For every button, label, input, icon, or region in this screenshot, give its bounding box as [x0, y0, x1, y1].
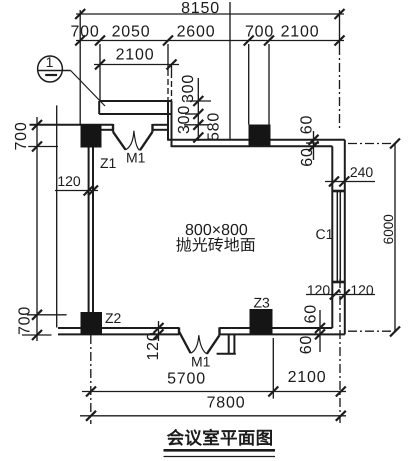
svg-text:M1: M1 [191, 354, 211, 370]
svg-text:700: 700 [70, 24, 99, 41]
svg-text:2100: 2100 [281, 24, 320, 41]
svg-text:2100: 2100 [288, 369, 327, 386]
svg-text:M1: M1 [126, 150, 146, 166]
svg-text:60: 60 [303, 304, 320, 323]
svg-text:Z3: Z3 [254, 295, 271, 311]
svg-text:6000: 6000 [381, 214, 396, 244]
svg-text:300: 300 [180, 74, 197, 103]
svg-text:120: 120 [145, 331, 162, 360]
svg-text:580: 580 [206, 112, 223, 141]
svg-text:抛光砖地面: 抛光砖地面 [176, 237, 256, 255]
svg-text:700: 700 [13, 121, 30, 150]
svg-text:120: 120 [57, 173, 81, 189]
svg-text:300: 300 [176, 105, 193, 134]
svg-text:60: 60 [299, 147, 316, 166]
svg-text:8150: 8150 [181, 0, 220, 17]
svg-text:700: 700 [245, 24, 274, 41]
svg-text:1: 1 [46, 54, 54, 70]
svg-text:Z1: Z1 [100, 155, 117, 171]
svg-text:2100: 2100 [116, 47, 155, 64]
svg-text:7800: 7800 [207, 395, 246, 412]
svg-text:240: 240 [350, 164, 374, 180]
svg-text:2050: 2050 [112, 24, 151, 41]
svg-text:800×800: 800×800 [185, 222, 248, 239]
svg-text:5700: 5700 [167, 371, 206, 388]
svg-text:60: 60 [299, 115, 316, 134]
svg-text:120: 120 [307, 282, 331, 298]
svg-text:Z2: Z2 [105, 310, 122, 326]
svg-text:2600: 2600 [177, 24, 216, 41]
svg-text:会议室平面图: 会议室平面图 [167, 428, 274, 448]
svg-text:60: 60 [298, 335, 315, 354]
svg-text:700: 700 [17, 306, 34, 335]
svg-text:120: 120 [350, 282, 374, 298]
svg-text:C1: C1 [316, 226, 334, 242]
